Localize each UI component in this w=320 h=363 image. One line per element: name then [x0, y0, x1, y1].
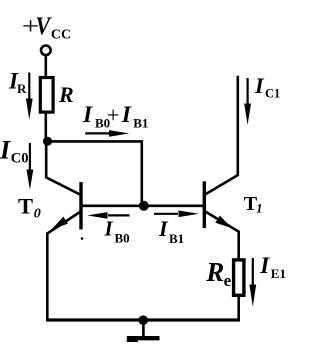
node B (base junction): [139, 201, 149, 211]
svg-text:I: I: [254, 73, 265, 98]
svg-text:R: R: [58, 82, 74, 107]
label I_B1: [158, 216, 184, 246]
current arrow I_B0+I_B1 (pointing right): [85, 130, 129, 137]
svg-text:I: I: [82, 102, 93, 128]
svg-text:I: I: [121, 102, 132, 128]
label I_B0+I_B1: [82, 102, 148, 131]
label I_R: [8, 68, 27, 96]
label I_C1: [254, 73, 280, 101]
svg-text:0: 0: [34, 207, 41, 222]
current arrow I_C1: [244, 78, 251, 125]
current arrow I_B1 (pointing right): [154, 211, 199, 218]
label I_C0: [0, 136, 29, 167]
transistor T0 collector (wire from node A down then diagonal to bar): [46, 141, 80, 194]
base wire T0 to T1: [82, 205, 203, 208]
transistor T1 collector (diagonal then long wire up): [205, 76, 238, 195]
svg-text:E1: E1: [271, 266, 286, 281]
terminal +Vcc (open circle): [41, 46, 51, 56]
svg-text:+: +: [107, 103, 120, 128]
svg-text:I: I: [0, 136, 11, 165]
ground node (junction dot): [138, 315, 148, 325]
svg-text:C1: C1: [265, 87, 280, 101]
svg-text:I: I: [104, 217, 114, 241]
svg-text:B1: B1: [133, 115, 148, 130]
transistor T1 emitter (diagonal with arrow, then wire down to Re): [205, 211, 239, 258]
label I_E1: [259, 253, 286, 281]
label T_1: [244, 193, 263, 216]
svg-text:R: R: [17, 81, 27, 96]
speck artifact: [81, 237, 84, 240]
label T_0: [18, 193, 41, 221]
node A (junction below R): [43, 137, 52, 146]
transistor T1 base bar: [203, 181, 206, 228]
svg-text:e: e: [224, 271, 232, 290]
current arrow I_C0: [27, 143, 34, 190]
svg-text:CC: CC: [51, 27, 71, 42]
svg-text:T: T: [18, 193, 33, 218]
transistor T0 emitter (diagonal with arrow, then wire down): [47, 212, 80, 321]
ground symbol: [127, 320, 160, 341]
wire resistor R to node A: [44, 112, 47, 143]
resistor R: [40, 78, 53, 113]
svg-text:B0: B0: [115, 230, 130, 245]
wire Vcc terminal to resistor R: [44, 55, 47, 78]
wire node A to base line (right then down): [48, 141, 142, 204]
bottom rail wire: [46, 318, 240, 321]
svg-text:I: I: [259, 253, 270, 278]
current arrow I_E1: [249, 258, 256, 307]
wire Re bottom to rail: [237, 294, 240, 320]
transistor T0 emitter arrowhead: [52, 217, 68, 230]
label +Vcc: [22, 13, 71, 43]
label R_e: [205, 257, 231, 290]
transistor T0 base bar: [79, 182, 82, 230]
svg-text:R: R: [205, 257, 224, 287]
svg-text:C0: C0: [11, 151, 29, 167]
label I_B0: [104, 217, 130, 246]
current arrow I_B0 (pointing left): [87, 212, 129, 219]
resistor Re: [234, 260, 244, 295]
svg-text:V: V: [36, 13, 53, 41]
transistor T1 emitter arrowhead: [215, 216, 232, 229]
current arrow I_R: [26, 73, 33, 120]
svg-text:B1: B1: [169, 231, 184, 246]
svg-text:I: I: [158, 216, 169, 241]
svg-text:1: 1: [256, 202, 262, 216]
